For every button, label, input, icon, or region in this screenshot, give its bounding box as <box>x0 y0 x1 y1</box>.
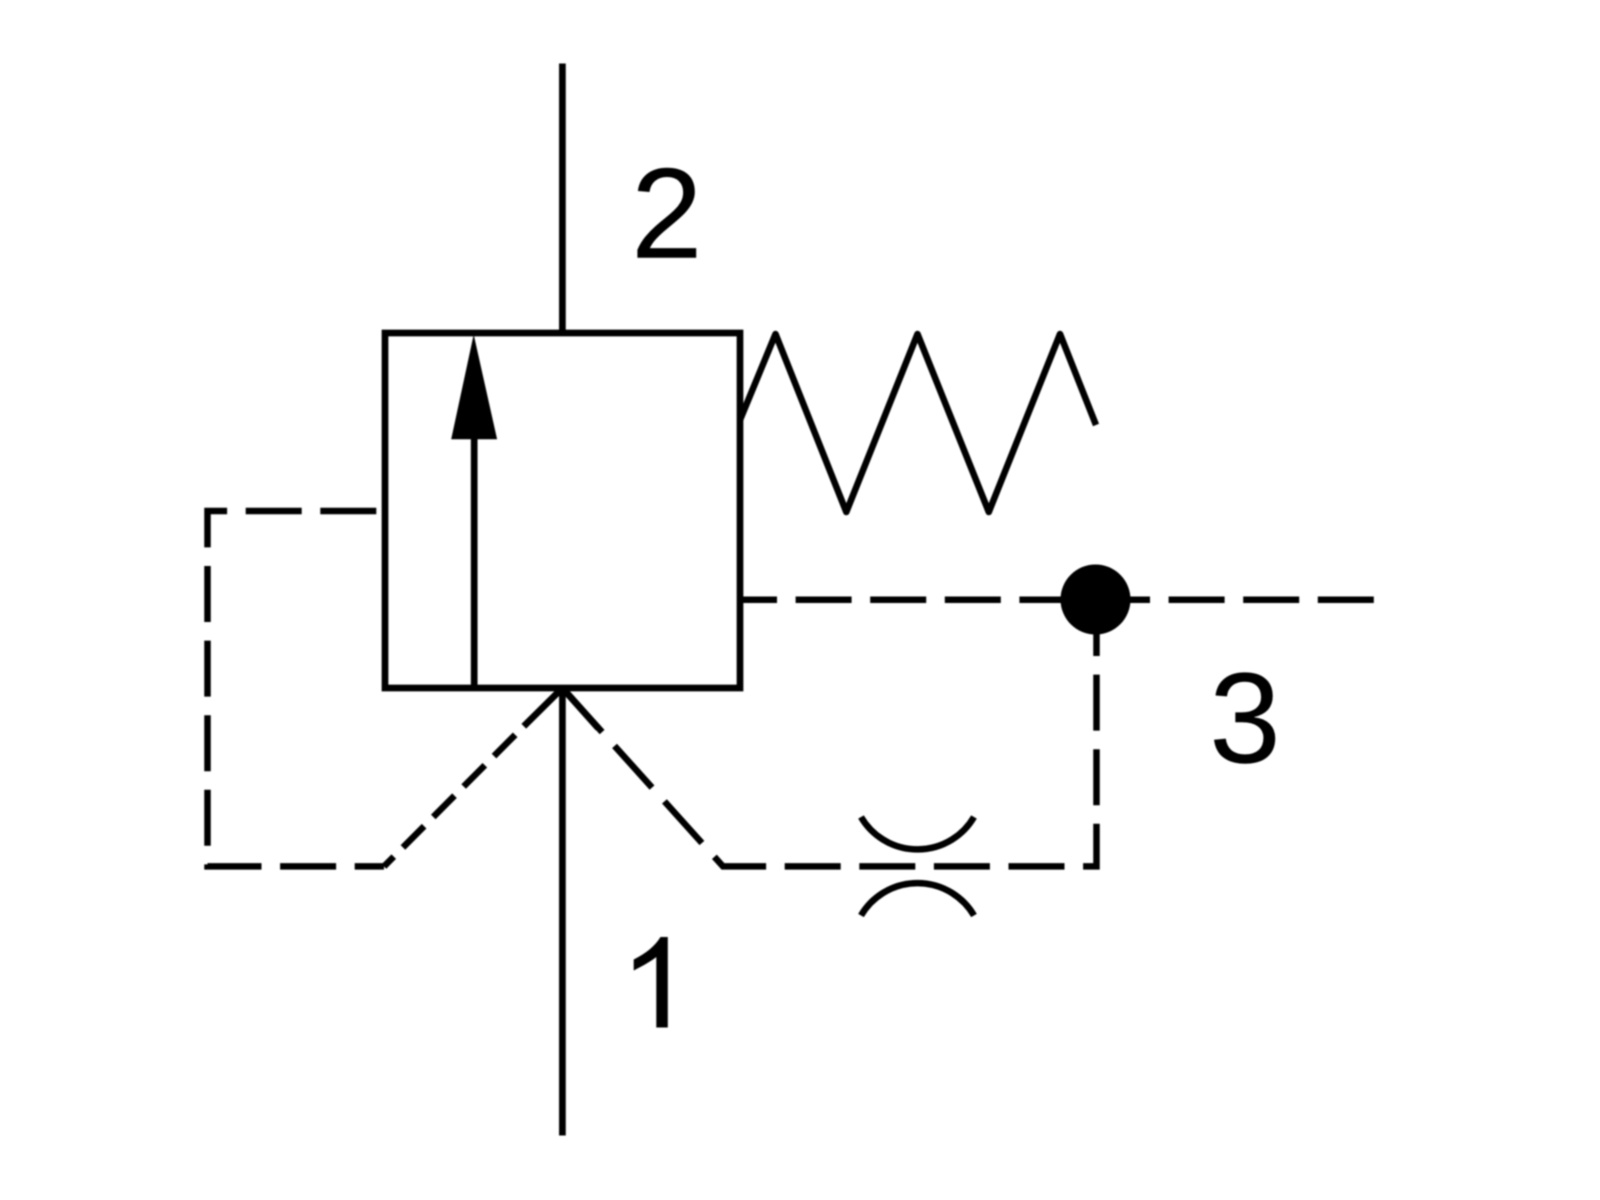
wire pilot line port 3 dashed horizontal <box>740 596 1374 603</box>
orifice lower arc <box>861 883 974 915</box>
flow arrow head <box>451 335 497 440</box>
wire left pilot diagonal dashed <box>384 735 515 867</box>
wire right pilot path dashed <box>562 600 1096 866</box>
node junction dot <box>1061 565 1131 635</box>
flow arrow shaft <box>471 437 478 686</box>
wire port 1 line <box>559 688 566 1136</box>
arrowhead right arm at port 1 <box>562 688 598 728</box>
svg-text:2: 2 <box>631 142 703 286</box>
arrowhead left arm at port 1 <box>524 688 563 726</box>
orifice upper arc <box>861 817 974 849</box>
wire left pilot path dashed <box>208 511 385 866</box>
valve envelope box <box>385 333 740 688</box>
wire port 2 line <box>559 64 566 334</box>
svg-text:3: 3 <box>1209 647 1281 791</box>
label port 1 <box>634 937 668 1028</box>
spring <box>740 334 1096 512</box>
